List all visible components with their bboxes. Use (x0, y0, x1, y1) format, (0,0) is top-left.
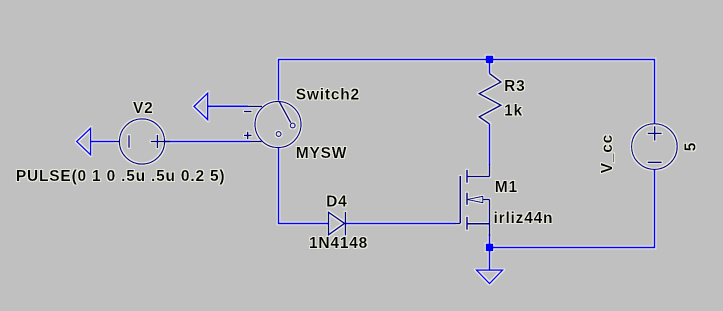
wire resistor bottom to drain (489, 124, 491, 165)
svg-text:1k: 1k (504, 103, 523, 120)
ground symbol (477, 270, 503, 284)
wire switch bottom to diode anode (279, 147, 330, 223)
svg-text:PULSE(0 1 0 .5u .5u 0.2 5): PULSE(0 1 0 .5u .5u 0.2 5) (16, 168, 225, 185)
svg-text:1N4148: 1N4148 (309, 235, 368, 252)
junction source node (486, 244, 494, 252)
svg-text:MYSW: MYSW (296, 145, 347, 162)
svg-text:V_cc: V_cc (599, 134, 616, 173)
wire top junction lead (489, 60, 491, 74)
svg-text:R3: R3 (504, 78, 525, 95)
diode D4 (329, 212, 346, 236)
svg-text:V2: V2 (133, 100, 154, 117)
voltage source V2 (115, 119, 170, 164)
voltage source V_cc (632, 124, 678, 170)
resistor R3 (479, 74, 501, 125)
svg-text:irliz44n: irliz44n (494, 210, 554, 227)
mosfet M1 (455, 164, 490, 236)
ground flag arrow left of V2 (77, 128, 91, 155)
wire source to ground (489, 234, 491, 270)
wire top loop: switch top to Vcc top (279, 60, 655, 125)
wire ground flag 2 to switch control minus (208, 105, 248, 107)
switch U: MYSW (244, 102, 301, 148)
junction top R3 (486, 56, 494, 64)
svg-text:D4: D4 (326, 194, 347, 211)
ground flag arrow at switch minus (194, 93, 208, 120)
wire diode cathode to mosfet gate (346, 223, 456, 225)
svg-text:Switch2: Switch2 (296, 86, 360, 103)
wire Vcc bottom to source junction (491, 170, 655, 248)
svg-text:5: 5 (683, 142, 700, 151)
svg-text:M1: M1 (495, 179, 518, 196)
wire ground flag 1 to V2 (91, 141, 115, 143)
wire V2 plus to switch control plus (165, 141, 250, 143)
